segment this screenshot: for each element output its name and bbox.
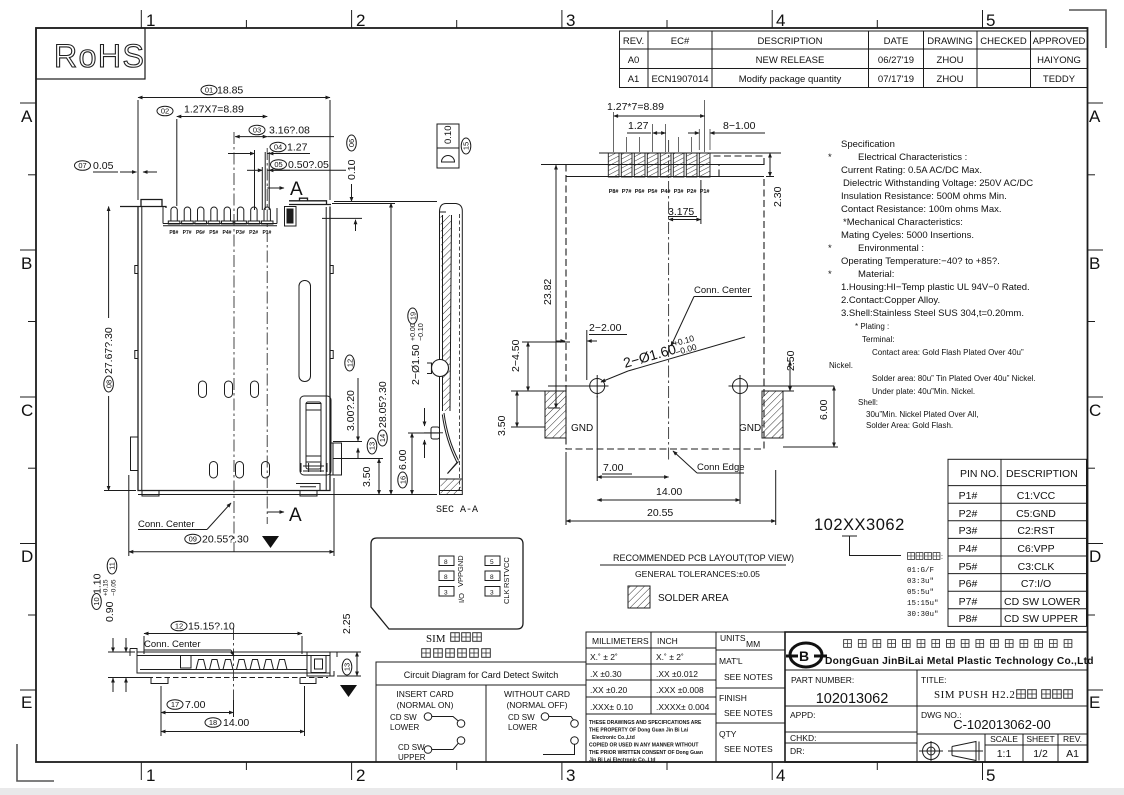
dimension (19) 2-dia1.50 (408, 308, 425, 458)
svg-text:09: 09 (189, 535, 197, 544)
svg-text:DRAWING: DRAWING (927, 36, 973, 47)
pcb solder pads P8-P1 hatched (608, 153, 710, 177)
svg-text:0.05: 0.05 (93, 160, 114, 172)
svg-text:B: B (1089, 254, 1100, 273)
svg-text:06: 06 (347, 139, 356, 147)
svg-text:8−1.00: 8−1.00 (723, 120, 756, 132)
balloon (13) bottom view (342, 659, 352, 675)
svg-text:INSERT CARD: INSERT CARD (396, 689, 453, 699)
svg-text:A: A (21, 107, 33, 126)
svg-text:C6:VPP: C6:VPP (1017, 543, 1054, 555)
svg-text:.XXX ±0.008: .XXX ±0.008 (656, 685, 704, 695)
svg-text:DATE: DATE (884, 36, 909, 47)
svg-text:3: 3 (566, 11, 575, 30)
tolerance table (586, 632, 716, 762)
svg-text:VCC: VCC (502, 557, 511, 573)
svg-text:Electronic Co.,Ltd: Electronic Co.,Ltd (592, 735, 635, 741)
svg-text:11: 11 (108, 562, 117, 570)
SIM pad C7 I/O (439, 587, 454, 597)
svg-text:−0.05: −0.05 (111, 579, 118, 596)
svg-text:8: 8 (490, 574, 494, 581)
svg-text:20.55?.30: 20.55?.30 (202, 534, 249, 546)
svg-text:102013062: 102013062 (816, 691, 889, 707)
svg-text:0.50?.05: 0.50?.05 (288, 159, 329, 171)
dimension 1.10 (10) rotated (92, 573, 127, 692)
svg-text:P2#: P2# (687, 189, 697, 195)
svg-text:102XX3062: 102XX3062 (814, 516, 905, 534)
svg-text:23.82: 23.82 (542, 279, 554, 305)
bottom view switch block right (307, 652, 337, 676)
specification text block (828, 139, 1033, 319)
svg-text:CD SW: CD SW (508, 713, 535, 722)
front view oval holes upper row (199, 381, 259, 398)
svg-text:3: 3 (566, 766, 575, 785)
svg-text:03:3u″: 03:3u″ (907, 578, 934, 586)
svg-text:P3#: P3# (674, 189, 684, 195)
svg-text:6.00: 6.00 (397, 449, 409, 470)
svg-text:.X ±0.30: .X ±0.30 (590, 669, 622, 679)
zone row ticks right (1088, 103, 1104, 690)
GND pad right hatched (762, 391, 783, 438)
svg-text:Conn Edge: Conn Edge (697, 462, 745, 473)
bottom view feet (151, 678, 316, 684)
svg-text:07/17'19: 07/17'19 (878, 74, 914, 85)
svg-text:CD SW: CD SW (390, 713, 417, 722)
svg-text:P5#: P5# (209, 230, 218, 236)
svg-text:+0.15: +0.15 (103, 579, 110, 596)
svg-text:SIM PUSH H2.2: SIM PUSH H2.2 (934, 689, 1015, 701)
section hatched wall (441, 215, 452, 411)
svg-text:7.00: 7.00 (603, 462, 624, 474)
svg-text:2.25: 2.25 (341, 613, 353, 634)
svg-text:GND: GND (456, 555, 465, 572)
svg-text:12: 12 (175, 622, 183, 631)
svg-text:P4#: P4# (959, 543, 978, 555)
front view bottom feet (142, 491, 317, 497)
svg-text:PART NUMBER:: PART NUMBER: (791, 675, 854, 685)
svg-text:P4#: P4# (223, 230, 232, 236)
SIM pad C3 CLK (485, 587, 500, 597)
svg-text:C3:CLK: C3:CLK (1018, 561, 1055, 573)
GND pad left hatched (545, 391, 566, 438)
svg-text:X.˚ ± 2˚: X.˚ ± 2˚ (656, 652, 684, 662)
svg-text:1: 1 (146, 11, 155, 30)
section line A-A through P1 (266, 148, 268, 524)
svg-text:SEE NOTES: SEE NOTES (724, 708, 773, 718)
svg-text:1.27: 1.27 (628, 120, 649, 132)
section contact spring (442, 413, 458, 474)
svg-text:P5#: P5# (648, 189, 658, 195)
svg-text:5: 5 (986, 11, 995, 30)
dimension (01) 18.85 (138, 85, 330, 201)
svg-text:2−Ø1.50: 2−Ø1.50 (410, 344, 422, 385)
svg-text:Current Rating: 0.5A AC/DC: Current Rating: 0.5A AC/DC Max. (841, 165, 982, 176)
svg-text:MM: MM (746, 639, 760, 649)
svg-text:Terminal:: Terminal: (862, 335, 894, 344)
dimension (16) 6.00 (397, 433, 440, 495)
svg-text:P7#: P7# (183, 230, 192, 236)
dimension (03) 3.16+-.08 (235, 125, 334, 137)
svg-text:INCH: INCH (657, 636, 678, 646)
front view pin labels (169, 230, 271, 236)
svg-text:14.00: 14.00 (223, 717, 249, 729)
dimension (09) 20.55+-.30 bottom (129, 475, 334, 556)
svg-text:P1#: P1# (959, 490, 978, 502)
section arrow A top (267, 179, 303, 200)
section body outline (440, 204, 463, 495)
tolerance table text (590, 636, 710, 712)
svg-text:P6#: P6# (196, 230, 205, 236)
svg-text:14: 14 (378, 434, 387, 442)
svg-text:THE PRIOR WRITTEN CONSENT: THE PRIOR WRITTEN CONSENT OF Dong Guan (589, 750, 703, 756)
svg-text:1.27X7=8.89: 1.27X7=8.89 (184, 104, 244, 116)
section arrow A bottom (267, 505, 302, 526)
svg-text:05: 05 (274, 160, 282, 169)
svg-text:3.00?.20: 3.00?.20 (345, 390, 357, 431)
svg-text:08: 08 (104, 380, 113, 388)
svg-text:1/2: 1/2 (1033, 748, 1048, 760)
svg-text:Nickel.: Nickel. (829, 361, 853, 370)
svg-text:P8#: P8# (609, 189, 619, 195)
company logo (786, 643, 827, 667)
svg-text:SEE NOTES: SEE NOTES (724, 744, 773, 754)
svg-text:VPP: VPP (456, 572, 465, 587)
SIM pad labels (456, 555, 511, 604)
svg-text:Dielectric Withstanding Volt: Dielectric Withstanding Voltage: 250V AC… (843, 178, 1033, 189)
plated hole right (729, 375, 752, 398)
svg-text:P8#: P8# (959, 613, 978, 625)
copyright disclaimer text (589, 720, 703, 764)
front view oval holes lower row (210, 462, 270, 479)
svg-text:2−4.50: 2−4.50 (510, 339, 522, 372)
svg-text:02: 02 (161, 107, 169, 116)
svg-text:SOLDER AREA: SOLDER AREA (658, 593, 729, 604)
svg-text:1:1: 1:1 (997, 748, 1012, 760)
svg-text:3.Shell:Stainless Steel SUS: 3.Shell:Stainless Steel SUS 304,t=0.20mm… (841, 308, 1024, 319)
plating codes list (907, 567, 939, 619)
svg-text:MILLIMETERS: MILLIMETERS (592, 636, 649, 646)
dimension (07) 0.05 (75, 160, 158, 200)
svg-text:LOWER: LOWER (508, 723, 538, 732)
svg-text:SCALE: SCALE (990, 734, 1018, 744)
svg-text:2.30: 2.30 (772, 186, 784, 207)
zone row letters right (1089, 107, 1101, 712)
zone row letters left (21, 107, 33, 712)
svg-text:Contact area: Gold Flash: Contact area: Gold Flash Plated Over 40u… (872, 348, 1024, 357)
svg-text:APPROVED: APPROVED (1033, 36, 1086, 47)
svg-text:2−2.00: 2−2.00 (589, 322, 622, 334)
svg-text:ZHOU: ZHOU (937, 74, 964, 85)
svg-text:P2#: P2# (249, 230, 258, 236)
svg-text:A0: A0 (628, 55, 640, 66)
svg-text:1: 1 (146, 766, 155, 785)
svg-text:12: 12 (345, 359, 354, 367)
section flatness control frame (437, 124, 459, 168)
svg-text:B: B (799, 648, 809, 664)
dimension (06) 0.10 vertical (322, 135, 437, 231)
dimension (04) 1.27 (228, 142, 310, 211)
zone column numbers bottom (146, 766, 995, 785)
svg-text:Solder area: 80u” Tin Plat: Solder area: 80u” Tin Plated Over 40u” N… (872, 374, 1036, 383)
SIM diagram caption line 1 (426, 633, 481, 645)
svg-text:A1: A1 (628, 74, 640, 85)
svg-text:0.10: 0.10 (443, 126, 454, 145)
svg-text:3: 3 (490, 590, 494, 597)
svg-text:01: 01 (205, 86, 213, 95)
svg-text:4: 4 (776, 11, 785, 30)
svg-text:05:5u″: 05:5u″ (907, 589, 934, 597)
leader bracket for plating code (842, 536, 901, 556)
svg-text:HAIYONG: HAIYONG (1037, 55, 1081, 66)
svg-text:−0.10: −0.10 (418, 323, 425, 341)
svg-text:ZHOU: ZHOU (937, 55, 964, 66)
dimension (02) 1.27X7=8.89 (157, 104, 267, 207)
svg-text:P7#: P7# (959, 596, 978, 608)
dimension 7.00 (pcb) (597, 396, 668, 481)
svg-text:FINISH: FINISH (719, 693, 747, 703)
bottom gray strip (0, 788, 1124, 795)
svg-text:DR:: DR: (790, 746, 805, 756)
svg-text:CD SW UPPER: CD SW UPPER (1004, 613, 1079, 625)
svg-text:P2#: P2# (959, 508, 978, 520)
svg-text:QTY: QTY (719, 729, 737, 739)
svg-text:P3#: P3# (959, 525, 978, 537)
svg-text:*: * (828, 243, 832, 254)
svg-text:(NORMAL ON): (NORMAL ON) (397, 700, 454, 710)
svg-text:THE PROPERTY OF Dong Guan: THE PROPERTY OF Dong Guan Jin Bi Lai (589, 728, 689, 734)
svg-text:15.15?.10: 15.15?.10 (188, 621, 235, 633)
front view slot (299, 281, 311, 382)
svg-text:COPIED OR USED IN ANY MAN: COPIED OR USED IN ANY MANNER WITHOUT (589, 743, 698, 749)
svg-text:13: 13 (368, 442, 377, 450)
svg-text:X.˚ ± 2˚: X.˚ ± 2˚ (590, 652, 618, 662)
svg-text:30:30u″: 30:30u″ (907, 611, 939, 619)
svg-text:Mating Cyeles: 5000 Inserti: Mating Cyeles: 5000 Insertions. (841, 230, 974, 241)
svg-text:CHKD:: CHKD: (790, 733, 816, 743)
front view contact pins P8-P1 (168, 152, 273, 224)
recommended pcb layout caption (600, 553, 794, 579)
revision table text (623, 36, 1086, 85)
dimension 3.50 pcb (496, 391, 545, 436)
svg-text:15:15u″: 15:15u″ (907, 600, 939, 608)
svg-text:*: * (828, 152, 832, 163)
svg-text:.XXX± 0.10: .XXX± 0.10 (590, 702, 633, 712)
svg-text:3.50: 3.50 (496, 415, 508, 436)
zone row ticks left (20, 103, 36, 690)
pcb top edge lines (541, 153, 781, 177)
svg-text:C5:GND: C5:GND (1016, 508, 1056, 520)
SIM pad C1 VCC (485, 556, 500, 566)
svg-text:15: 15 (462, 142, 471, 150)
section mounting peg (424, 427, 443, 439)
balloon (15) (461, 138, 471, 154)
SIM pad C6 VPP (439, 571, 454, 581)
svg-text:2.Contact:Copper Alloy.: 2.Contact:Copper Alloy. (841, 295, 940, 306)
svg-text:REV.: REV. (623, 36, 644, 47)
front view edge seam nubs (135, 266, 333, 359)
dimension (18) 14.00 bottom view (161, 686, 305, 736)
svg-text:SIM: SIM (426, 633, 446, 645)
dimension (05) 0.50+-.05 (247, 159, 346, 210)
svg-text:UNITS: UNITS (720, 633, 746, 643)
section card cavity dashed edge (459, 214, 461, 490)
svg-text:* Plating :: * Plating : (855, 322, 889, 331)
svg-text:Operating Temperature:−40? t: Operating Temperature:−40? to +85?. (841, 256, 1000, 267)
dimension 20.55 (pcb) (566, 452, 776, 525)
svg-text:A: A (1089, 107, 1101, 126)
svg-text:NEW RELEASE: NEW RELEASE (756, 55, 825, 66)
svg-text:13: 13 (343, 663, 352, 671)
svg-text:SHEET: SHEET (1026, 734, 1054, 744)
svg-text:P8#: P8# (169, 230, 178, 236)
svg-text:14.00: 14.00 (656, 486, 682, 498)
insert card label (396, 689, 570, 710)
SIM card outline (371, 538, 523, 629)
svg-text:DongGuan JinBiLai Metal Pla: DongGuan JinBiLai Metal Plastic Technolo… (825, 656, 1094, 667)
svg-text:E: E (21, 693, 32, 712)
bottom view body (130, 649, 330, 674)
balloon (13) front view (367, 438, 377, 454)
svg-text:30u”Min. Nickel Plated Over: 30u”Min. Nickel Plated Over All, (866, 410, 979, 419)
svg-text:5: 5 (986, 766, 995, 785)
dimension 2.25 rotated bottom view (332, 613, 361, 676)
svg-text:PIN NO.: PIN NO. (960, 468, 999, 480)
pcb outline dashed (566, 156, 764, 449)
svg-text:P6#: P6# (959, 578, 978, 590)
svg-text:7.00: 7.00 (185, 699, 206, 711)
svg-text:A: A (290, 179, 303, 200)
svg-text:2.50: 2.50 (785, 350, 797, 371)
svg-text:03: 03 (253, 126, 261, 135)
svg-text:20.55: 20.55 (647, 507, 673, 519)
svg-text:.XXXX± 0.004: .XXXX± 0.004 (656, 702, 710, 712)
zone column numbers top (146, 11, 995, 30)
conn centerline front view (233, 132, 235, 552)
section boss hole (427, 360, 449, 377)
svg-text:1.27*7=8.89: 1.27*7=8.89 (607, 101, 664, 113)
svg-text:GENERAL TOLERANCES:±0.05: GENERAL TOLERANCES:±0.05 (635, 569, 760, 579)
svg-text:(NORMAL OFF): (NORMAL OFF) (506, 700, 567, 710)
svg-text:Solder Area: Gold Flash.: Solder Area: Gold Flash. (866, 421, 953, 430)
dimension (12) 15.15 bottom view (144, 621, 302, 655)
svg-text:16: 16 (398, 476, 407, 484)
svg-text:01:G/F: 01:G/F (907, 567, 934, 575)
svg-text:ECN1907014: ECN1907014 (651, 74, 708, 85)
svg-text:REV.: REV. (1063, 734, 1082, 744)
conn center label bottom view (144, 639, 234, 656)
svg-text:Conn. Center: Conn. Center (694, 285, 751, 296)
svg-text:A: A (289, 505, 302, 526)
corner mark bottom-left (17, 744, 54, 781)
zone column ticks bottom (141, 762, 982, 780)
svg-text:CHECKED: CHECKED (980, 36, 1027, 47)
dimension 3.50 front view (333, 459, 383, 495)
svg-text:DESCRIPTION: DESCRIPTION (758, 36, 823, 47)
svg-text:P5#: P5# (959, 561, 978, 573)
svg-text:EC#: EC# (671, 36, 690, 47)
pin table (948, 459, 1087, 626)
card detect switch closed (insert card) (424, 713, 465, 754)
svg-text:C-102013062-00: C-102013062-00 (953, 717, 1051, 732)
svg-text:2: 2 (356, 11, 365, 30)
dimension 14.00 (pcb) (597, 396, 740, 504)
svg-text:CD SW: CD SW (398, 743, 425, 752)
svg-text:GND: GND (571, 423, 593, 434)
front view latch (285, 207, 297, 227)
svg-text:4: 4 (776, 766, 785, 785)
bottom view centerline (233, 628, 235, 700)
svg-text:I/O: I/O (457, 593, 466, 603)
circuit diagram box for card detect switch (376, 662, 586, 762)
svg-text:*Mechanical Characteristics:: *Mechanical Characteristics: (843, 217, 963, 228)
svg-text:Material:: Material: (858, 269, 894, 280)
SIM pad C5 GND (439, 556, 454, 566)
svg-text:GND: GND (739, 423, 761, 434)
plating spec label (908, 553, 943, 561)
svg-text:TITLE:: TITLE: (921, 675, 947, 685)
svg-text:A1: A1 (1066, 748, 1079, 760)
dimension 2-4.50 (510, 339, 570, 391)
svg-text:1.Housing:HI−Temp plastic UL: 1.Housing:HI−Temp plastic UL 94V−0 Rated… (841, 282, 1030, 293)
svg-text:THESE DRAWINGS AND SPECIFIC: THESE DRAWINGS AND SPECIFICATIONS ARE (589, 720, 702, 726)
svg-text:D: D (21, 547, 33, 566)
dimension (08) 27.67+-.30 vertical left (103, 207, 136, 491)
svg-text::: : (941, 554, 943, 561)
svg-text:RECOMMENDED PCB LAYOUT(TOP: RECOMMENDED PCB LAYOUT(TOP VIEW) (613, 553, 794, 563)
svg-text:3.50: 3.50 (361, 466, 373, 487)
svg-text:18: 18 (209, 718, 217, 727)
front view side tab right (330, 443, 342, 475)
front view inner edge lines (138, 207, 437, 495)
svg-text:Contact Resistance: 100m oh: Contact Resistance: 100m ohms Max. (841, 204, 1002, 215)
dimension (17) 7.00 bottom view (161, 686, 234, 736)
svg-text:UPPER: UPPER (398, 753, 426, 762)
svg-text:2: 2 (356, 766, 365, 785)
front view push rod (300, 396, 331, 475)
svg-text:P7#: P7# (622, 189, 632, 195)
bottom view dashed line (139, 677, 328, 679)
scale sheet rev (990, 734, 1082, 744)
hole horizontal extension lines (548, 385, 834, 387)
svg-text:Conn. Center: Conn. Center (138, 519, 195, 530)
svg-text:P3#: P3# (236, 230, 245, 236)
card detect switch open (without card) (541, 713, 578, 755)
svg-text:C: C (21, 401, 33, 420)
svg-text:0.90: 0.90 (104, 601, 116, 622)
svg-text:DESCRIPTION: DESCRIPTION (1006, 468, 1078, 480)
conn edge label (673, 451, 745, 473)
title block center column text (719, 633, 773, 754)
pcb centerline (668, 140, 670, 462)
dimension 6.00 (pcb) (783, 386, 838, 447)
pad extension lines up (614, 100, 710, 152)
svg-text:.XX ±0.20: .XX ±0.20 (590, 685, 628, 695)
svg-text:3.16?.08: 3.16?.08 (269, 125, 310, 137)
specification plating sub-block (829, 322, 1036, 430)
svg-text:18.85: 18.85 (217, 85, 243, 97)
svg-text:8: 8 (444, 559, 448, 566)
svg-text:8: 8 (444, 574, 448, 581)
front view side tab left (131, 437, 139, 471)
svg-text:D: D (1089, 547, 1101, 566)
svg-text:Circuit Diagram for Card D: Circuit Diagram for Card Detect Switch (404, 670, 559, 680)
solder area legend (628, 586, 729, 608)
dimension (12) 3.00+-.20 vertical (333, 355, 362, 458)
svg-text:RST: RST (502, 573, 511, 588)
SIM pad C2 RST (485, 571, 500, 581)
svg-text:10: 10 (92, 597, 101, 605)
svg-text:Under plate: 40u”Min. Nicke: Under plate: 40u”Min. Nickel. (872, 387, 975, 396)
